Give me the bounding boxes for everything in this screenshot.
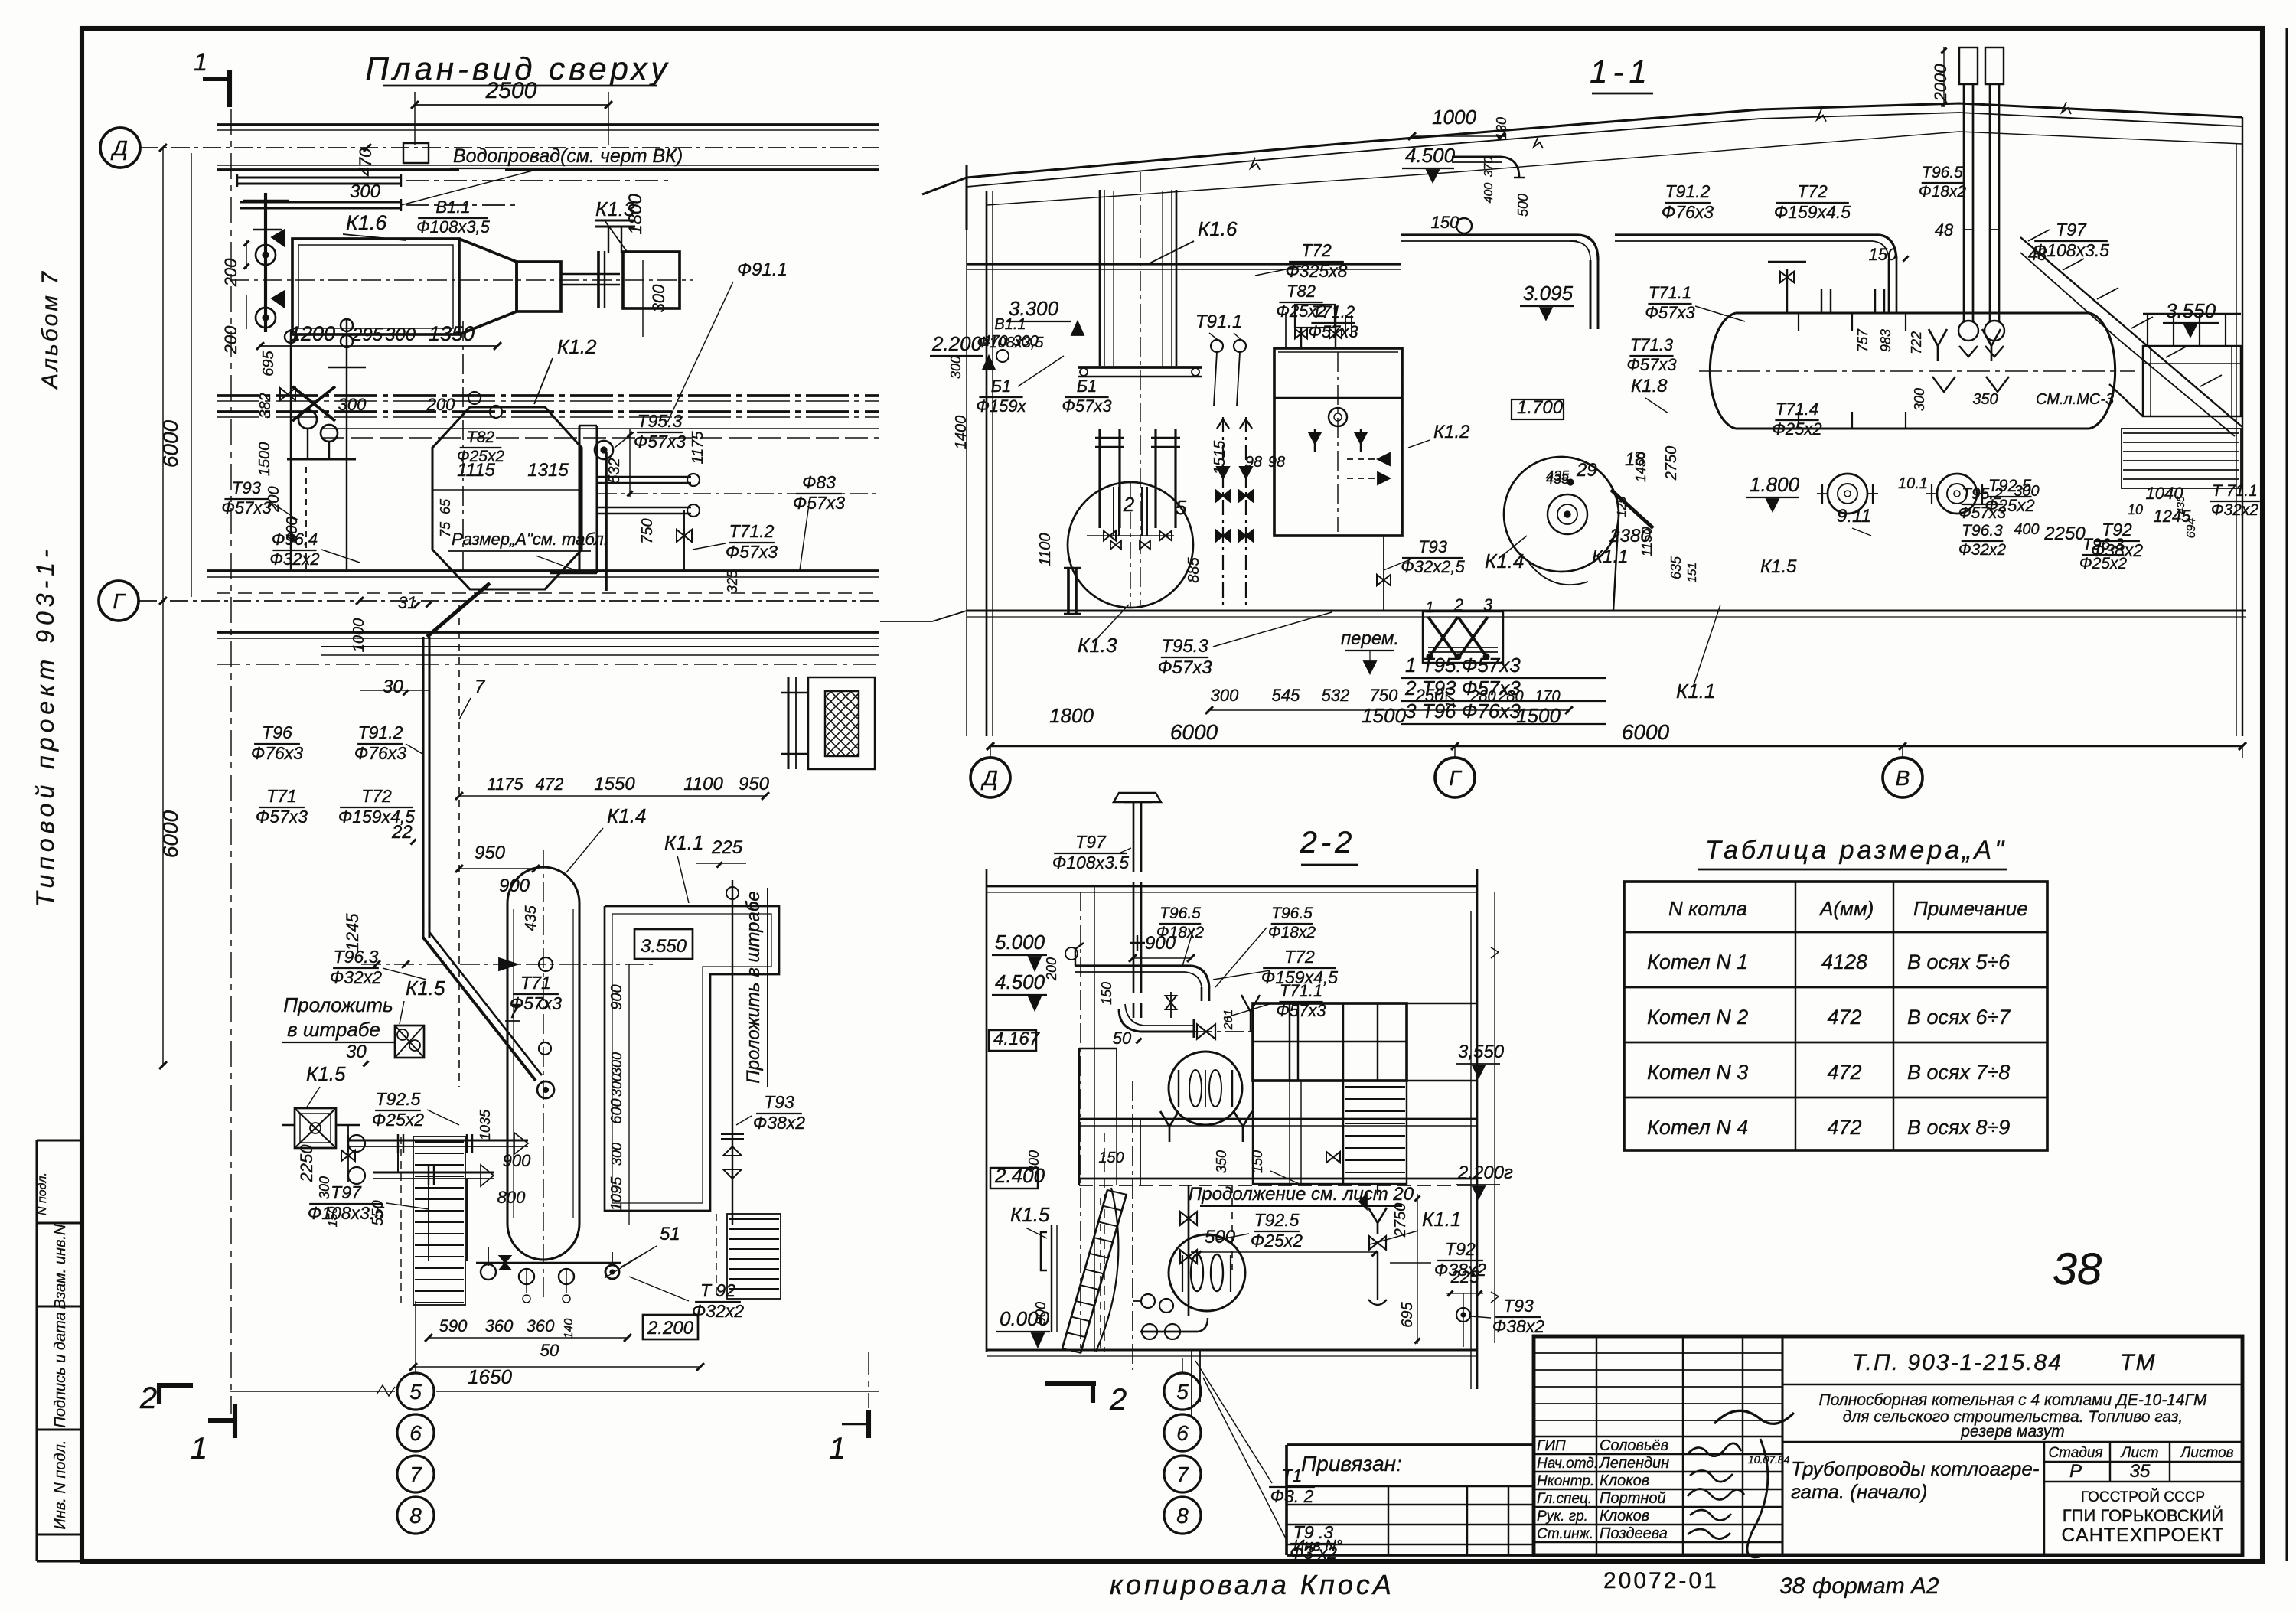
svg-text:2-2: 2-2 bbox=[1300, 826, 1356, 859]
svg-text:К1.6: К1.6 bbox=[346, 211, 387, 234]
svg-text:Трубопроводы котлоагре-: Трубопроводы котлоагре- bbox=[1791, 1457, 2040, 1480]
svg-text:К1.1: К1.1 bbox=[664, 831, 703, 854]
svg-text:К1.4: К1.4 bbox=[607, 804, 646, 827]
svg-text:5.000: 5.000 bbox=[995, 931, 1045, 954]
svg-text:1800: 1800 bbox=[1049, 704, 1094, 727]
svg-text:750: 750 bbox=[1370, 686, 1398, 705]
svg-text:130: 130 bbox=[1494, 117, 1509, 140]
svg-text:300: 300 bbox=[385, 324, 416, 345]
svg-text:38: 38 bbox=[2053, 1244, 2102, 1294]
svg-text:35: 35 bbox=[2130, 1461, 2151, 1482]
svg-text:2750: 2750 bbox=[1663, 446, 1680, 481]
svg-text:51: 51 bbox=[660, 1224, 680, 1244]
svg-text:1000: 1000 bbox=[1432, 106, 1476, 129]
svg-text:150: 150 bbox=[1098, 1150, 1124, 1166]
svg-text:Ф76х3: Ф76х3 bbox=[1662, 202, 1714, 222]
svg-text:Т97: Т97 bbox=[331, 1182, 362, 1202]
svg-text:1-1: 1-1 bbox=[1590, 54, 1652, 90]
svg-text:1100: 1100 bbox=[1037, 533, 1054, 566]
svg-text:1: 1 bbox=[1425, 599, 1433, 616]
svg-text:150: 150 bbox=[327, 1207, 340, 1228]
svg-text:200: 200 bbox=[1044, 957, 1059, 981]
svg-text:8: 8 bbox=[1176, 1504, 1189, 1528]
svg-text:Т96.5: Т96.5 bbox=[1271, 905, 1313, 922]
svg-text:350: 350 bbox=[1214, 1150, 1229, 1173]
svg-text:1095: 1095 bbox=[608, 1176, 625, 1211]
svg-text:Т92.5: Т92.5 bbox=[376, 1089, 421, 1109]
svg-text:Т82: Т82 bbox=[1287, 282, 1316, 301]
svg-text:6000: 6000 bbox=[1170, 720, 1218, 744]
svg-text:983: 983 bbox=[1878, 329, 1893, 352]
svg-text:472: 472 bbox=[1827, 1116, 1861, 1139]
svg-text:Котел N 1: Котел N 1 bbox=[1647, 951, 1748, 973]
svg-text:Ф25х2: Ф25х2 bbox=[372, 1110, 424, 1130]
svg-text:6: 6 bbox=[409, 1421, 422, 1445]
svg-text:325: 325 bbox=[725, 569, 740, 593]
svg-text:280: 280 bbox=[1497, 688, 1523, 705]
svg-text:200: 200 bbox=[426, 395, 455, 414]
svg-text:К1.8: К1.8 bbox=[1631, 376, 1668, 396]
svg-text:150: 150 bbox=[1250, 1150, 1265, 1173]
svg-text:225: 225 bbox=[711, 837, 743, 858]
svg-text:К1.2: К1.2 bbox=[557, 335, 597, 358]
svg-text:300: 300 bbox=[2014, 483, 2039, 500]
svg-text:1500: 1500 bbox=[1516, 704, 1561, 727]
svg-text:3: 3 bbox=[1483, 595, 1493, 615]
svg-text:3.550: 3.550 bbox=[641, 936, 687, 957]
svg-text:Т96.3: Т96.3 bbox=[2082, 536, 2124, 553]
svg-text:550: 550 bbox=[370, 1200, 386, 1225]
svg-text:350: 350 bbox=[1972, 391, 1998, 408]
svg-text:800: 800 bbox=[497, 1188, 526, 1207]
svg-text:2250: 2250 bbox=[297, 1144, 316, 1183]
svg-text:Ф57х3: Ф57х3 bbox=[1308, 322, 1358, 341]
svg-text:В1.1: В1.1 bbox=[994, 316, 1026, 333]
svg-text:Т71.4: Т71.4 bbox=[1776, 399, 1818, 419]
svg-text:7: 7 bbox=[409, 1463, 422, 1486]
svg-text:1245: 1245 bbox=[343, 913, 362, 951]
svg-text:Т82: Т82 bbox=[467, 429, 495, 446]
svg-text:30: 30 bbox=[346, 1042, 367, 1062]
svg-text:А(мм): А(мм) bbox=[1818, 897, 1874, 920]
svg-text:150: 150 bbox=[1869, 245, 1897, 264]
svg-text:Т 92: Т 92 bbox=[700, 1280, 735, 1300]
svg-text:Т71.2: Т71.2 bbox=[729, 521, 775, 541]
svg-text:1000: 1000 bbox=[351, 618, 367, 653]
svg-text:48: 48 bbox=[1935, 220, 1954, 240]
svg-text:435: 435 bbox=[523, 905, 540, 931]
svg-text:400: 400 bbox=[1482, 183, 1495, 204]
svg-text:4.167: 4.167 bbox=[993, 1029, 1041, 1049]
svg-text:1500: 1500 bbox=[1362, 704, 1406, 727]
svg-text:Нач.отд.: Нач.отд. bbox=[1537, 1456, 1598, 1472]
svg-text:Т92.5: Т92.5 bbox=[1254, 1210, 1300, 1230]
svg-text:Т71.2: Т71.2 bbox=[1312, 302, 1355, 321]
svg-text:формат А2: формат А2 bbox=[1812, 1573, 1939, 1599]
svg-text:590: 590 bbox=[439, 1316, 468, 1335]
svg-text:Т93: Т93 bbox=[1418, 537, 1448, 556]
svg-text:1800: 1800 bbox=[625, 194, 646, 235]
svg-text:Ф108х3.5: Ф108х3.5 bbox=[1052, 853, 1129, 872]
svg-text:1035: 1035 bbox=[478, 1109, 493, 1140]
svg-text:Гл.спец.: Гл.спец. bbox=[1537, 1491, 1592, 1507]
svg-text:Ф159х: Ф159х bbox=[976, 396, 1026, 416]
svg-text:1550: 1550 bbox=[594, 774, 635, 794]
svg-text:Т71.3: Т71.3 bbox=[1630, 335, 1674, 354]
svg-text:Лепендин: Лепендин bbox=[1598, 1455, 1669, 1472]
svg-text:Котел N 3: Котел N 3 bbox=[1647, 1061, 1748, 1084]
svg-text:Т.П. 903-1-215.84: Т.П. 903-1-215.84 bbox=[1852, 1350, 2063, 1375]
svg-text:ТМ: ТМ bbox=[2120, 1350, 2157, 1375]
svg-text:К1.5: К1.5 bbox=[1010, 1203, 1050, 1226]
svg-text:435: 435 bbox=[1546, 468, 1570, 484]
svg-text:Т72: Т72 bbox=[1284, 947, 1315, 967]
svg-text:Ф57х3: Ф57х3 bbox=[221, 498, 272, 517]
svg-text:1: 1 bbox=[194, 48, 207, 76]
svg-text:Ф57х3: Ф57х3 bbox=[1062, 396, 1112, 416]
svg-text:ГПИ ГОРЬКОВСКИЙ: ГПИ ГОРЬКОВСКИЙ bbox=[2063, 1506, 2224, 1525]
svg-text:225: 225 bbox=[1450, 1267, 1479, 1287]
svg-text:В: В bbox=[1896, 766, 1910, 790]
svg-text:170: 170 bbox=[1534, 688, 1560, 705]
svg-text:75: 75 bbox=[438, 521, 453, 537]
svg-text:Т72: Т72 bbox=[1301, 240, 1332, 260]
svg-text:30: 30 bbox=[383, 677, 403, 697]
svg-text:Ф25х2: Ф25х2 bbox=[1251, 1231, 1303, 1251]
svg-text:4.500: 4.500 bbox=[995, 970, 1045, 993]
svg-text:1: 1 bbox=[191, 1432, 207, 1466]
svg-text:65: 65 bbox=[438, 498, 453, 514]
svg-text:Д: Д bbox=[110, 136, 128, 160]
svg-text:Т95.2: Т95.2 bbox=[1962, 485, 2003, 503]
svg-text:К1.3: К1.3 bbox=[1078, 634, 1117, 657]
svg-text:Т72: Т72 bbox=[361, 786, 392, 806]
svg-text:2380: 2380 bbox=[1609, 526, 1651, 546]
svg-text:900: 900 bbox=[503, 1151, 531, 1170]
svg-text:Ф108х3,5: Ф108х3,5 bbox=[416, 217, 491, 236]
svg-text:2.200: 2.200 bbox=[931, 332, 983, 355]
svg-text:300: 300 bbox=[1912, 388, 1927, 411]
svg-text:Б1: Б1 bbox=[1077, 377, 1097, 396]
svg-text:Ф32х2: Ф32х2 bbox=[2211, 501, 2259, 519]
svg-text:472: 472 bbox=[536, 775, 564, 794]
svg-text:1100: 1100 bbox=[683, 774, 723, 794]
svg-text:3.095: 3.095 bbox=[1523, 282, 1574, 305]
svg-text:470: 470 bbox=[356, 148, 375, 176]
svg-text:Ф32х2: Ф32х2 bbox=[1958, 541, 2007, 559]
svg-text:2.200г: 2.200г bbox=[1457, 1163, 1513, 1183]
svg-text:1.800: 1.800 bbox=[1750, 473, 1800, 496]
svg-text:500: 500 bbox=[1515, 194, 1531, 217]
svg-text:900: 900 bbox=[1033, 1302, 1049, 1325]
svg-text:750: 750 bbox=[639, 518, 656, 543]
svg-text:382: 382 bbox=[257, 393, 274, 418]
svg-text:Нконтр.: Нконтр. bbox=[1537, 1473, 1594, 1489]
svg-text:300: 300 bbox=[338, 395, 367, 414]
svg-text:ГОССТРОЙ СССР: ГОССТРОЙ СССР bbox=[2081, 1489, 2205, 1505]
svg-text:10.07.84: 10.07.84 bbox=[1748, 1453, 1790, 1466]
svg-text:Т1: Т1 bbox=[1282, 1466, 1303, 1485]
svg-text:Т97: Т97 bbox=[2056, 220, 2087, 240]
svg-text:757: 757 bbox=[1855, 328, 1870, 352]
svg-text:2250: 2250 bbox=[2043, 523, 2086, 544]
svg-text:532: 532 bbox=[1322, 686, 1350, 705]
svg-text:Т93: Т93 bbox=[764, 1092, 794, 1112]
svg-text:7: 7 bbox=[509, 1000, 521, 1022]
svg-text:600: 600 bbox=[608, 1098, 625, 1123]
svg-text:360: 360 bbox=[527, 1316, 555, 1335]
svg-text:150: 150 bbox=[1099, 982, 1114, 1005]
svg-text:В осях 5÷6: В осях 5÷6 bbox=[1907, 951, 2011, 973]
svg-text:К1.5: К1.5 bbox=[406, 977, 445, 1000]
svg-text:Ф57х3: Ф57х3 bbox=[1626, 355, 1677, 374]
svg-text:Т96.5: Т96.5 bbox=[1159, 905, 1201, 922]
svg-text:Ф18х2: Ф18х2 bbox=[1268, 924, 1316, 941]
svg-text:Т72: Т72 bbox=[1797, 181, 1828, 201]
svg-text:885: 885 bbox=[1186, 556, 1202, 582]
svg-text:125: 125 bbox=[1616, 497, 1629, 517]
svg-text:2: 2 bbox=[139, 1381, 157, 1415]
svg-text:К1.2: К1.2 bbox=[1433, 422, 1470, 442]
svg-text:98: 98 bbox=[1268, 454, 1285, 471]
svg-text:Ст.инж.: Ст.инж. bbox=[1537, 1526, 1593, 1542]
svg-text:САНТЕХПРОЕКТ: САНТЕХПРОЕКТ bbox=[2062, 1525, 2225, 1546]
svg-text:Г: Г bbox=[1449, 766, 1462, 790]
svg-text:5: 5 bbox=[1176, 496, 1187, 519]
svg-text:2: 2 bbox=[1123, 493, 1135, 516]
svg-text:Таблица размера„А": Таблица размера„А" bbox=[1705, 836, 2007, 865]
svg-text:К1.1: К1.1 bbox=[1422, 1208, 1461, 1231]
svg-text:Ф3. 2: Ф3. 2 bbox=[1270, 1486, 1314, 1506]
svg-text:1175: 1175 bbox=[487, 775, 523, 794]
svg-text:300: 300 bbox=[649, 284, 668, 312]
svg-text:200: 200 bbox=[221, 325, 240, 354]
svg-text:300: 300 bbox=[1211, 686, 1239, 705]
svg-text:4.500: 4.500 bbox=[1405, 144, 1456, 167]
svg-text:Ф325х8: Ф325х8 bbox=[1286, 261, 1348, 281]
svg-text:472: 472 bbox=[1827, 1061, 1861, 1084]
svg-text:950: 950 bbox=[739, 774, 770, 794]
svg-text:Альбом 7: Альбом 7 bbox=[38, 269, 63, 390]
svg-text:Т96.3: Т96.3 bbox=[1962, 522, 2003, 540]
svg-text:Инв N°: Инв N° bbox=[1293, 1538, 1342, 1554]
svg-text:Т71.1: Т71.1 bbox=[1280, 981, 1322, 1000]
svg-text:31: 31 bbox=[398, 593, 416, 612]
svg-text:2500: 2500 bbox=[485, 78, 537, 103]
svg-text:140: 140 bbox=[563, 1319, 576, 1339]
svg-text:Полносборная котельная с 4 кот: Полносборная котельная с 4 котлами ДЕ-10… bbox=[1818, 1391, 2207, 1409]
svg-text:6000: 6000 bbox=[1622, 720, 1670, 744]
svg-text:Д: Д bbox=[980, 766, 998, 790]
svg-text:Соловьёв: Соловьёв bbox=[1600, 1437, 1668, 1454]
svg-text:29: 29 bbox=[1576, 460, 1597, 481]
svg-text:гата. (начало): гата. (начало) bbox=[1791, 1480, 1927, 1503]
svg-text:Рук. гр.: Рук. гр. bbox=[1537, 1508, 1588, 1525]
svg-text:Ф18х2: Ф18х2 bbox=[1919, 183, 1967, 201]
svg-text:900: 900 bbox=[499, 876, 530, 896]
svg-text:Ф57х3: Ф57х3 bbox=[726, 542, 778, 562]
svg-text:300: 300 bbox=[1026, 1150, 1042, 1173]
svg-text:копировала КпосА: копировала КпосА bbox=[1110, 1569, 1394, 1600]
svg-text:Котел N 2: Котел N 2 bbox=[1647, 1006, 1748, 1029]
svg-text:К1.4: К1.4 bbox=[1485, 550, 1524, 572]
svg-text:360: 360 bbox=[485, 1316, 514, 1335]
svg-text:Г: Г bbox=[113, 589, 126, 613]
svg-text:Т91.2: Т91.2 bbox=[1665, 181, 1711, 201]
svg-text:50: 50 bbox=[540, 1341, 559, 1360]
svg-text:20072-01: 20072-01 bbox=[1603, 1568, 1719, 1593]
svg-text:Ф32х2,5: Ф32х2,5 bbox=[1401, 557, 1465, 576]
svg-text:Подпись и дата: Подпись и дата bbox=[52, 1312, 69, 1427]
svg-text:Ф83: Ф83 bbox=[802, 472, 836, 492]
svg-text:5: 5 bbox=[409, 1380, 422, 1404]
svg-text:Т93: Т93 bbox=[232, 478, 262, 497]
svg-text:перем.: перем. bbox=[1341, 628, 1399, 649]
svg-text:К1.5: К1.5 bbox=[306, 1062, 346, 1085]
svg-text:300: 300 bbox=[609, 1143, 625, 1166]
svg-text:Проложить: Проложить bbox=[283, 993, 393, 1016]
svg-text:Ф57х3: Ф57х3 bbox=[1157, 657, 1212, 678]
svg-text:В осях 7÷8: В осях 7÷8 bbox=[1907, 1061, 2010, 1084]
svg-text:695: 695 bbox=[260, 350, 277, 376]
svg-text:Ф57х3: Ф57х3 bbox=[256, 807, 308, 827]
svg-text:1175: 1175 bbox=[690, 431, 706, 465]
svg-text:3,550: 3,550 bbox=[1458, 1042, 1505, 1062]
svg-text:370: 370 bbox=[1482, 157, 1495, 178]
svg-text:Водопровад(см. черт ВК): Водопровад(см. черт ВК) bbox=[453, 145, 683, 167]
svg-text:Ф108х3,5: Ф108х3,5 bbox=[977, 334, 1044, 351]
svg-text:Р: Р bbox=[2069, 1461, 2082, 1482]
svg-text:2: 2 bbox=[1109, 1383, 1127, 1417]
svg-text:Т95.3: Т95.3 bbox=[1161, 636, 1208, 657]
svg-text:Т96.5: Т96.5 bbox=[1922, 164, 1963, 181]
svg-text:N подл.: N подл. bbox=[36, 1172, 49, 1215]
svg-text:900: 900 bbox=[608, 984, 625, 1009]
svg-text:2: 2 bbox=[1453, 595, 1463, 615]
svg-text:300: 300 bbox=[609, 1052, 625, 1075]
svg-text:Ф57х3: Ф57х3 bbox=[793, 493, 845, 513]
svg-text:К1.1: К1.1 bbox=[1676, 680, 1715, 703]
svg-text:1500: 1500 bbox=[256, 442, 273, 477]
svg-text:10.1: 10.1 bbox=[1898, 475, 1928, 492]
svg-text:Т92: Т92 bbox=[1445, 1239, 1476, 1259]
svg-text:Примечание: Примечание bbox=[1913, 897, 2028, 920]
svg-text:Ф76х3: Ф76х3 bbox=[354, 743, 406, 763]
svg-text:151: 151 bbox=[1686, 563, 1699, 583]
svg-text:Т93: Т93 bbox=[1503, 1296, 1534, 1316]
svg-text:2.200: 2.200 bbox=[647, 1318, 694, 1339]
svg-text:Б1: Б1 bbox=[991, 377, 1012, 396]
svg-text:Проложить в штрабе: Проложить в штрабе bbox=[743, 891, 764, 1083]
svg-text:22: 22 bbox=[391, 822, 413, 843]
svg-text:N котла: N котла bbox=[1668, 897, 1747, 920]
svg-text:694: 694 bbox=[2185, 518, 2198, 539]
svg-text:8: 8 bbox=[409, 1504, 422, 1528]
svg-text:635: 635 bbox=[1668, 556, 1684, 579]
svg-text:Т71: Т71 bbox=[520, 973, 551, 993]
svg-text:500: 500 bbox=[1205, 1227, 1236, 1247]
svg-text:150: 150 bbox=[1431, 213, 1459, 232]
svg-text:261: 261 bbox=[1222, 1009, 1235, 1031]
svg-text:Ф32х2: Ф32х2 bbox=[330, 967, 382, 987]
svg-text:7: 7 bbox=[1176, 1463, 1189, 1486]
svg-text:резерв мазут: резерв мазут bbox=[1960, 1423, 2064, 1440]
svg-text:В осях 8÷9: В осях 8÷9 bbox=[1907, 1116, 2010, 1139]
svg-text:Т 71.1: Т 71.1 bbox=[2212, 482, 2258, 500]
svg-text:Продолжение см. лист 20: Продолжение см. лист 20 bbox=[1189, 1184, 1414, 1205]
svg-text:10: 10 bbox=[2128, 502, 2143, 517]
svg-text:4128: 4128 bbox=[1821, 951, 1867, 973]
svg-text:300: 300 bbox=[609, 1074, 625, 1097]
svg-text:950: 950 bbox=[475, 843, 506, 863]
svg-text:5: 5 bbox=[1176, 1380, 1189, 1404]
svg-text:6: 6 bbox=[1176, 1421, 1189, 1445]
svg-text:2000: 2000 bbox=[1931, 64, 1950, 103]
svg-text:Т97: Т97 bbox=[1075, 832, 1107, 852]
svg-text:Ф25х2: Ф25х2 bbox=[2079, 555, 2128, 572]
svg-text:В осях 6÷7: В осях 6÷7 bbox=[1907, 1006, 2011, 1029]
svg-text:300: 300 bbox=[317, 1176, 332, 1199]
svg-text:Размер„А"см. табл.: Размер„А"см. табл. bbox=[452, 530, 608, 549]
svg-text:280: 280 bbox=[1469, 688, 1495, 705]
svg-text:1650: 1650 bbox=[468, 1365, 512, 1388]
svg-text:1315: 1315 bbox=[527, 460, 569, 481]
svg-text:ГИП: ГИП bbox=[1537, 1438, 1566, 1454]
svg-text:1 Т95.Ф57х3: 1 Т95.Ф57х3 bbox=[1405, 654, 1521, 677]
svg-text:Ф91.1: Ф91.1 bbox=[737, 259, 788, 280]
svg-text:в штрабе: в штрабе bbox=[287, 1018, 380, 1041]
svg-text:300: 300 bbox=[350, 181, 381, 202]
svg-text:Лист: Лист bbox=[2120, 1445, 2159, 1461]
svg-text:Стадия: Стадия bbox=[2048, 1445, 2102, 1461]
svg-text:170: 170 bbox=[1444, 688, 1457, 709]
svg-text:435: 435 bbox=[2174, 496, 2187, 514]
svg-text:2750: 2750 bbox=[1392, 1203, 1409, 1238]
svg-text:К1.1: К1.1 bbox=[1592, 546, 1629, 567]
svg-text:295: 295 bbox=[351, 324, 383, 345]
svg-text:Т91.2: Т91.2 bbox=[358, 722, 403, 742]
svg-text:1350: 1350 bbox=[429, 322, 475, 345]
svg-text:300: 300 bbox=[948, 356, 964, 379]
svg-text:Ф32х2: Ф32х2 bbox=[269, 550, 319, 569]
svg-text:6000: 6000 bbox=[158, 419, 182, 468]
svg-text:Т71.1: Т71.1 bbox=[1649, 283, 1691, 302]
svg-text:СМ.л.МС-3: СМ.л.МС-3 bbox=[2036, 391, 2114, 408]
svg-text:6000: 6000 bbox=[158, 810, 182, 858]
svg-text:Ф76х3: Ф76х3 bbox=[251, 743, 303, 763]
svg-text:Ф38х2: Ф38х2 bbox=[1492, 1316, 1544, 1336]
svg-text:532: 532 bbox=[606, 458, 623, 483]
svg-text:50: 50 bbox=[1113, 1029, 1132, 1048]
svg-text:Котел N 4: Котел N 4 bbox=[1647, 1116, 1748, 1139]
svg-text:472: 472 bbox=[1827, 1006, 1861, 1029]
svg-text:Т96: Т96 bbox=[262, 722, 292, 742]
svg-text:Ф38х2: Ф38х2 bbox=[753, 1113, 805, 1133]
svg-text:38: 38 bbox=[1779, 1573, 1805, 1599]
svg-text:545: 545 bbox=[1272, 686, 1300, 705]
svg-text:Типовой проект 903-1-: Типовой проект 903-1- bbox=[31, 545, 59, 907]
svg-text:Ф57х3: Ф57х3 bbox=[1645, 303, 1695, 322]
svg-text:Клоков: Клоков bbox=[1600, 1472, 1649, 1489]
svg-text:Инв. N подл.: Инв. N подл. bbox=[52, 1440, 69, 1530]
svg-text:Листов: Листов bbox=[2179, 1445, 2233, 1461]
svg-text:Портной: Портной bbox=[1600, 1490, 1666, 1507]
svg-text:Ф159х4.5: Ф159х4.5 bbox=[1774, 202, 1851, 222]
svg-text:Взам. инв.N: Взам. инв.N bbox=[52, 1224, 69, 1309]
svg-text:К1.5: К1.5 bbox=[1760, 556, 1797, 577]
svg-text:Привязан:: Привязан: bbox=[1301, 1452, 1402, 1476]
svg-text:1400: 1400 bbox=[953, 416, 970, 450]
